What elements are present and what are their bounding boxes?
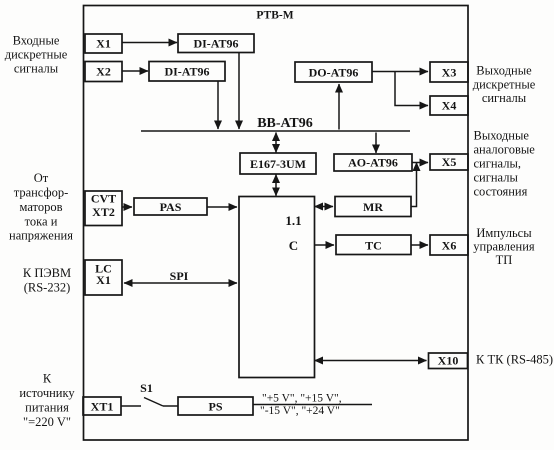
svg-text:сигналы: сигналы [474, 171, 519, 185]
svg-text:1.1: 1.1 [285, 213, 301, 228]
svg-text:дискретные: дискретные [473, 78, 536, 92]
svg-text:Выходные: Выходные [476, 64, 532, 78]
svg-text:состояния: состояния [474, 185, 528, 199]
svg-text:дискретные: дискретные [5, 48, 68, 62]
svg-text:К: К [43, 372, 52, 386]
svg-text:DO-AT96: DO-AT96 [309, 66, 359, 80]
svg-text:TC: TC [365, 239, 382, 253]
svg-text:SPI: SPI [170, 269, 189, 283]
svg-text:MR: MR [363, 200, 383, 214]
svg-text:X10: X10 [438, 354, 459, 368]
svg-text:CVT: CVT [91, 192, 116, 206]
svg-text:PAS: PAS [160, 200, 182, 214]
svg-text:"=220 V": "=220 V" [23, 415, 71, 429]
svg-text:"-15 V", "+24 V": "-15 V", "+24 V" [260, 405, 340, 417]
svg-text:(RS-232): (RS-232) [24, 281, 71, 295]
svg-text:DI-AT96: DI-AT96 [193, 37, 238, 51]
svg-text:источнику: источнику [19, 386, 75, 400]
svg-text:E167-3UM: E167-3UM [250, 157, 306, 171]
svg-text:XT1: XT1 [91, 400, 114, 414]
svg-text:ВВ-АТ96: ВВ-АТ96 [257, 116, 313, 131]
svg-text:трансфор-: трансфор- [14, 186, 69, 200]
svg-text:сигналы,: сигналы, [474, 157, 521, 171]
svg-text:напряжения: напряжения [9, 229, 73, 243]
svg-text:X1: X1 [96, 273, 111, 287]
svg-text:сигналы: сигналы [482, 91, 527, 105]
svg-text:X4: X4 [442, 99, 457, 113]
svg-text:X2: X2 [96, 65, 111, 79]
svg-text:сигналы: сигналы [14, 62, 59, 76]
svg-text:Импульсы: Импульсы [476, 226, 532, 240]
svg-text:DI-AT96: DI-AT96 [164, 65, 209, 79]
svg-text:AO-AT96: AO-AT96 [348, 156, 398, 170]
svg-text:"+5 V", "+15 V",: "+5 V", "+15 V", [262, 393, 342, 405]
svg-text:тока и: тока и [25, 215, 58, 229]
svg-text:питания: питания [25, 401, 69, 415]
svg-text:X6: X6 [442, 239, 457, 253]
svg-text:Входные: Входные [13, 34, 60, 48]
svg-text:К ПЭВМ: К ПЭВМ [23, 266, 71, 280]
svg-text:К ТК (RS-485): К ТК (RS-485) [476, 353, 553, 367]
svg-text:XT2: XT2 [92, 205, 115, 219]
svg-text:Выходные: Выходные [474, 129, 530, 143]
svg-text:С: С [289, 238, 298, 253]
svg-text:От: От [34, 171, 49, 185]
svg-text:X1: X1 [96, 37, 111, 51]
svg-text:ТП: ТП [496, 253, 513, 267]
svg-text:РТВ-М: РТВ-М [256, 10, 293, 22]
svg-text:S1: S1 [140, 381, 153, 395]
svg-text:X3: X3 [442, 66, 457, 80]
svg-text:маторов: маторов [20, 200, 63, 214]
svg-text:управления: управления [473, 240, 535, 254]
svg-text:аналоговые: аналоговые [474, 143, 536, 157]
svg-text:PS: PS [208, 400, 222, 414]
svg-text:X5: X5 [442, 155, 457, 169]
